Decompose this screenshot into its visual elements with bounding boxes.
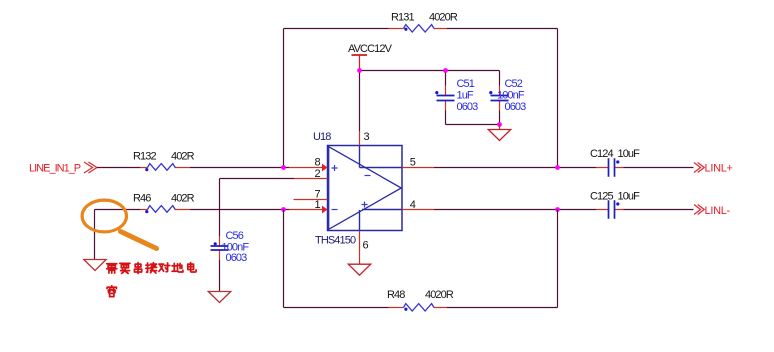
node junction pin4/feedback (555, 207, 560, 212)
ground (under C52) (488, 130, 510, 141)
wire input to R132 (97, 167, 140, 169)
wire right feedback vertical (bottom) (557, 210, 559, 308)
wire R46 left + vertical to ground (95, 210, 141, 260)
pin 3 (359, 131, 361, 146)
svg-text:R131: R131 (391, 12, 414, 24)
wire AVCC down to pin3 (359, 71, 361, 132)
capacitor C124 (596, 167, 624, 169)
wire AVCC rail to C51/C52 (360, 71, 500, 86)
svg-text:AVCC12V: AVCC12V (348, 43, 393, 55)
wire bottom feedback horizontal (284, 307, 558, 309)
svg-text:10uF: 10uF (618, 148, 641, 160)
resistor R46 (140, 209, 190, 211)
node junction pin8/feedback (281, 165, 286, 170)
ground (op-amp pin 6) (348, 264, 370, 275)
svg-text:8: 8 (315, 157, 321, 169)
svg-text:4020R: 4020R (429, 12, 458, 24)
wire top feedback horizontal (284, 28, 558, 30)
svg-text:LINL+: LINL+ (705, 163, 733, 175)
capacitor C51 (445, 71, 447, 125)
op-amp U18 box (328, 146, 403, 231)
svg-text:R132: R132 (133, 151, 156, 163)
port LINL- chevron (694, 205, 704, 215)
svg-text:3: 3 (364, 131, 370, 143)
pin 8 (289, 167, 323, 169)
wire R132 to pin8 junction (190, 167, 289, 169)
power port AVCC12V (352, 54, 368, 56)
annotation text 容 (line 2) (107, 286, 116, 297)
pin 5 (402, 167, 434, 169)
svg-text:5: 5 (410, 157, 416, 169)
svg-text:C124: C124 (590, 148, 613, 160)
svg-text:4020R: 4020R (425, 289, 454, 301)
svg-text:C125: C125 (590, 191, 613, 203)
svg-text:100nF: 100nF (497, 90, 525, 102)
annotation magnifier ellipse (82, 200, 126, 232)
wire C124 to LINL+ (624, 167, 694, 169)
node junction pin1/feedback (281, 207, 286, 212)
wire left feedback vertical (bottom) (283, 210, 285, 308)
node junction pin5/feedback (555, 165, 560, 170)
svg-text:0603: 0603 (226, 252, 248, 264)
svg-text:2: 2 (315, 168, 321, 180)
ground (left, under R46 input) (84, 260, 106, 271)
svg-text:0603: 0603 (505, 101, 527, 113)
svg-text:1: 1 (315, 199, 321, 211)
wire C51/C52 bottom to ground (446, 124, 500, 126)
capacitor C52 (499, 111, 501, 125)
svg-text:R48: R48 (387, 289, 405, 301)
wire right feedback vertical (top) (557, 29, 559, 168)
op-amp + mark (left top) (332, 165, 338, 171)
svg-text:C56: C56 (226, 230, 244, 242)
pin 4 (402, 209, 434, 211)
svg-text:1uF: 1uF (457, 90, 474, 102)
resistor R131 (389, 28, 448, 30)
wire pin5 to C124 (434, 167, 596, 169)
svg-text:U18: U18 (313, 131, 331, 143)
pin 7 (294, 199, 328, 201)
op-amp + mark (mid bottom) (362, 202, 368, 208)
op-amp internal pin3/pin5 lines (360, 146, 403, 168)
wire R46 to pin1 junction (190, 209, 289, 211)
svg-text:402R: 402R (171, 151, 195, 163)
annotation magnifier handle (121, 232, 157, 249)
op-amp U18 triangle (329, 147, 402, 230)
pin 1 (289, 209, 323, 211)
resistor R48 (389, 307, 448, 309)
svg-text:C52: C52 (505, 78, 523, 90)
wire left feedback vertical (top) (283, 29, 285, 168)
capacitor C56 (219, 236, 221, 260)
op-amp internal pin6/pin4 lines (360, 210, 403, 231)
ground (under C56) (208, 292, 230, 303)
svg-text:LINL-: LINL- (705, 205, 731, 217)
op-amp - mark (mid top) (365, 175, 371, 177)
resistor R132 (140, 167, 190, 169)
capacitor C125 (596, 209, 624, 211)
op-amp - mark (left bottom) (332, 209, 338, 211)
pin 2 (294, 178, 328, 180)
pin 6 (359, 231, 361, 265)
port LINE_IN1_P chevron (84, 162, 97, 173)
wire C56 to ground (219, 260, 221, 292)
svg-text:10uF: 10uF (618, 191, 641, 203)
wire pin4 to C125 (434, 209, 596, 211)
annotation text 需要串接对地电容 (line 1) (107, 264, 117, 273)
svg-text:4: 4 (410, 199, 416, 211)
svg-text:R46: R46 (133, 193, 151, 205)
svg-text:402R: 402R (171, 193, 195, 205)
svg-text:THS4150: THS4150 (315, 235, 356, 247)
wire pin2 net to C56 (220, 179, 295, 237)
svg-text:LINE_IN1_P: LINE_IN1_P (29, 163, 81, 175)
wire C125 to LINL- (624, 209, 694, 211)
svg-text:6: 6 (363, 240, 369, 252)
port LINL+ chevron (694, 163, 704, 173)
svg-text:C51: C51 (457, 78, 475, 90)
svg-text:0603: 0603 (457, 101, 479, 113)
